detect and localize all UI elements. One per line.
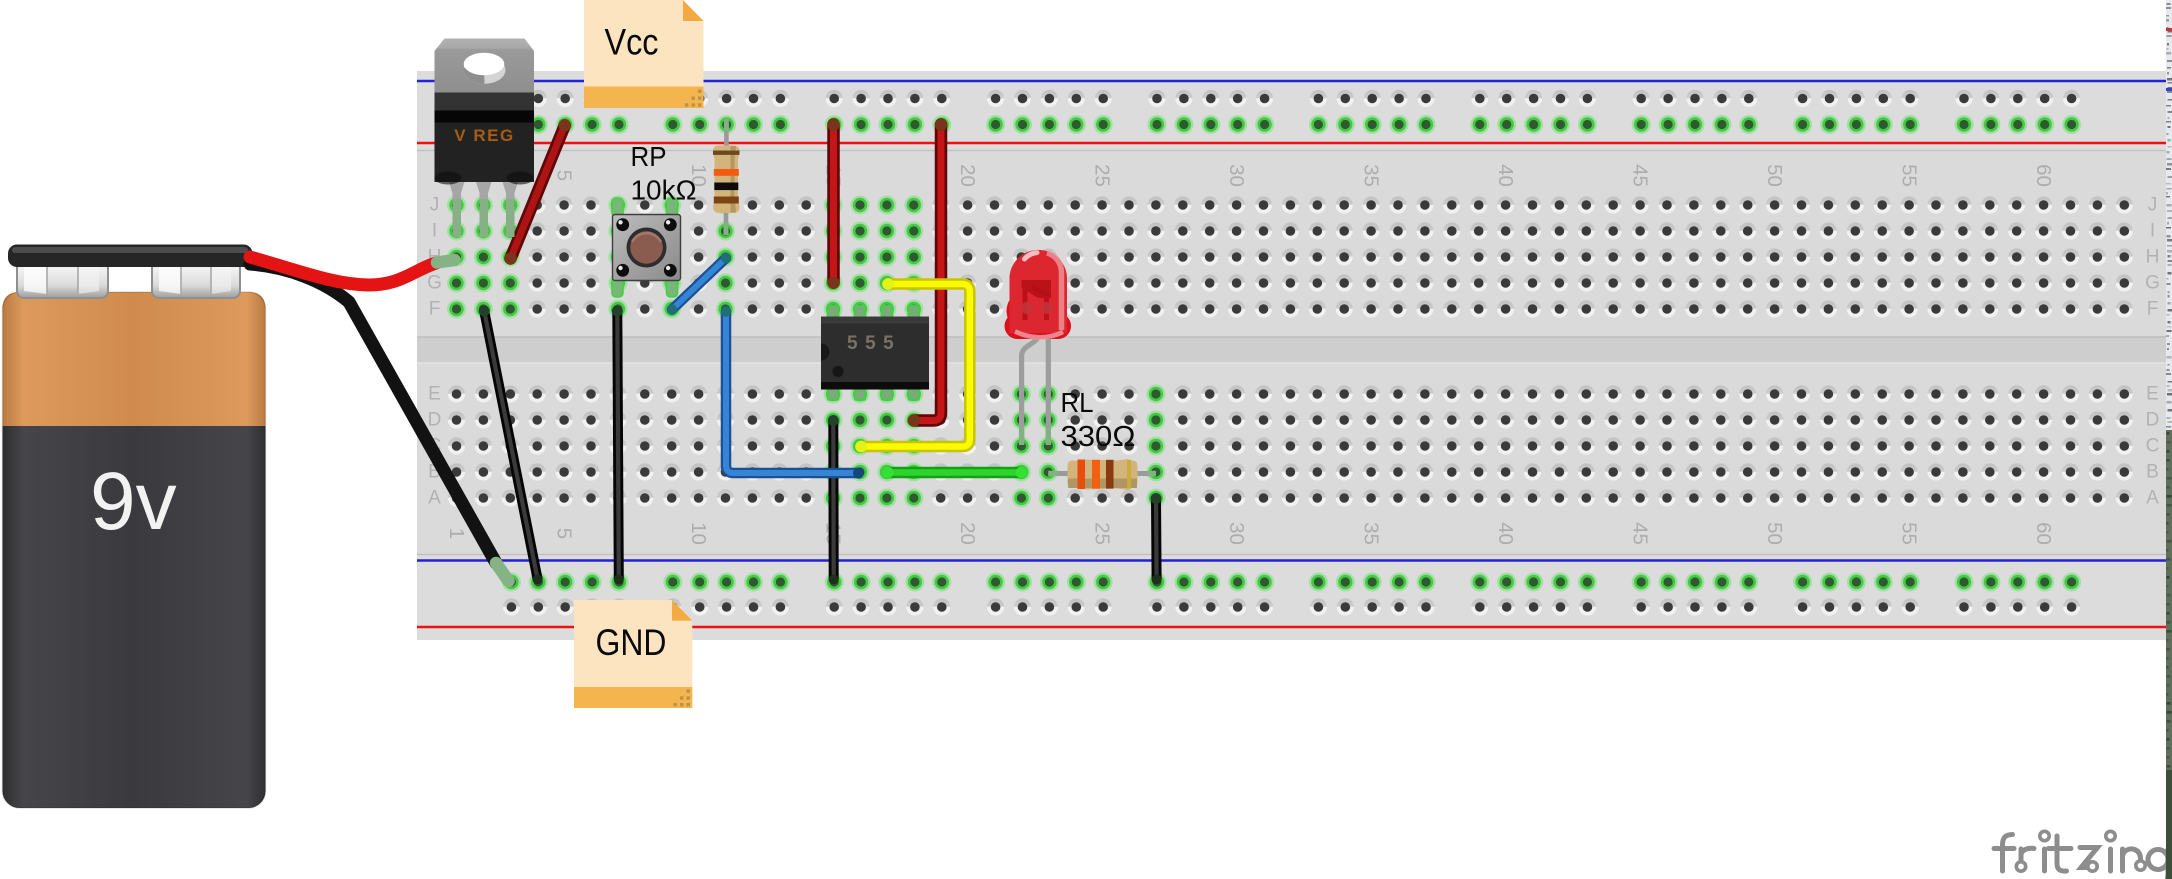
wire: battery black lead to bottom rail	[250, 264, 496, 563]
wire: red jumper H3 to Vcc rail	[511, 126, 565, 259]
svg-text:GND: GND	[596, 622, 667, 663]
svg-text:35: 35	[1360, 164, 1383, 187]
svg-text:25: 25	[1091, 522, 1114, 545]
svg-text:D: D	[428, 410, 442, 431]
op-amp/timer IC U1 555	[821, 306, 929, 401]
bottom rail blue line	[417, 554, 2166, 556]
svg-text:30: 30	[1225, 164, 1248, 187]
LED highlights	[1025, 253, 1038, 259]
button pin bottom-left	[612, 278, 623, 297]
vreg leg 3	[503, 182, 519, 237]
column number labels	[445, 164, 2055, 545]
wire: black jumper F7 to ground rail	[617, 311, 619, 579]
svg-text:I: I	[432, 221, 437, 242]
svg-text:45: 45	[1629, 522, 1652, 545]
battery terminal left	[17, 256, 108, 298]
battery top cap	[8, 245, 253, 268]
svg-text:555: 555	[847, 333, 901, 354]
wire: green jumper B17 to B22	[888, 467, 1022, 479]
svg-text:55: 55	[1898, 522, 1921, 545]
button pin top-right	[667, 198, 678, 217]
svg-text:Vcc: Vcc	[605, 22, 659, 63]
right edge panel sliver	[2166, 0, 2172, 879]
row letter labels	[427, 195, 2160, 509]
wire: blue jumper F11 to B16	[726, 312, 859, 474]
svg-text:40: 40	[1494, 164, 1517, 187]
svg-text:10: 10	[687, 522, 710, 545]
LED cathode leg	[1022, 330, 1040, 444]
resistor RP 10k	[713, 119, 740, 235]
svg-text:330Ω: 330Ω	[1061, 421, 1136, 453]
svg-text:A: A	[428, 488, 441, 509]
LED flange	[1007, 290, 1050, 333]
wire: red jumper Vcc rail to D18	[914, 125, 941, 421]
svg-text:V REG: V REG	[454, 126, 514, 145]
vreg tab	[435, 39, 535, 96]
svg-text:I: I	[2150, 221, 2155, 242]
LED internals	[1022, 280, 1052, 298]
svg-text:60: 60	[2032, 164, 2055, 187]
wire: yellow jumper G17 to C16	[861, 284, 970, 447]
wire: blue jumper F9 to H11	[672, 258, 726, 310]
svg-text:9v: 9v	[90, 456, 177, 547]
top rail red line	[417, 142, 2166, 144]
svg-text:A: A	[2146, 488, 2159, 509]
vreg body	[435, 93, 535, 183]
vreg tab hole	[464, 56, 506, 84]
svg-text:1: 1	[445, 528, 468, 539]
LED dome	[1010, 250, 1068, 333]
svg-text:C: C	[2146, 436, 2160, 457]
wire: red jumper Vcc rail to G15	[827, 125, 840, 283]
svg-text:E: E	[2146, 384, 2159, 405]
svg-text:H: H	[2146, 247, 2160, 268]
pushbutton S1	[612, 198, 681, 297]
battery 9V	[3, 245, 266, 809]
button body	[613, 215, 681, 281]
wire: battery red lead to H1	[250, 257, 436, 285]
svg-text:E: E	[428, 384, 441, 405]
svg-text:20: 20	[956, 522, 979, 545]
svg-text:5: 5	[553, 170, 576, 181]
node GND sticky note	[574, 600, 692, 708]
svg-text:55: 55	[1898, 164, 1921, 187]
wire: black jumper D15 to ground rail	[828, 421, 838, 579]
svg-text:F: F	[2147, 299, 2159, 320]
svg-text:25: 25	[1091, 164, 1114, 187]
button pin bottom-right	[667, 278, 678, 297]
svg-text:RP: RP	[631, 141, 667, 172]
resistor RL 330	[1048, 459, 1156, 490]
vreg leg 1	[449, 182, 465, 237]
svg-text:B: B	[2146, 462, 2159, 483]
svg-text:G: G	[427, 273, 442, 294]
svg-text:45: 45	[1629, 164, 1652, 187]
voltage regulator U2 (TO-220 V REG)	[435, 39, 535, 238]
svg-text:35: 35	[1360, 522, 1383, 545]
svg-text:50: 50	[1763, 522, 1786, 545]
svg-text:J: J	[2148, 195, 2158, 216]
svg-text:40: 40	[1494, 522, 1517, 545]
bottom rail red line	[417, 626, 2166, 628]
wire: black jumper A27 to ground rail	[1151, 499, 1162, 579]
wire: black jumper F2 to ground rail	[484, 311, 537, 579]
svg-text:60: 60	[2032, 522, 2055, 545]
node Vcc sticky note	[584, 0, 704, 108]
vreg leg 2	[476, 182, 492, 237]
top rail blue line	[417, 80, 2166, 82]
fritzing logo watermark	[1994, 835, 2168, 879]
LED D1 red	[1005, 250, 1072, 445]
button pin top-left	[612, 198, 623, 217]
svg-text:D: D	[2146, 410, 2160, 431]
svg-text:G: G	[2145, 273, 2160, 294]
svg-text:10kΩ: 10kΩ	[631, 175, 697, 206]
breadboard body	[417, 71, 2166, 640]
IC body	[821, 317, 929, 390]
svg-text:30: 30	[1225, 522, 1248, 545]
svg-text:F: F	[429, 299, 441, 320]
battery terminal right	[152, 256, 240, 298]
svg-text:RL: RL	[1061, 387, 1094, 418]
svg-text:5: 5	[553, 528, 576, 539]
IC pins	[828, 306, 839, 320]
LED anode leg	[1046, 330, 1051, 444]
svg-text:50: 50	[1763, 164, 1786, 187]
breadboard center channel	[417, 337, 2166, 363]
svg-text:J: J	[430, 195, 440, 216]
svg-text:20: 20	[956, 164, 979, 187]
